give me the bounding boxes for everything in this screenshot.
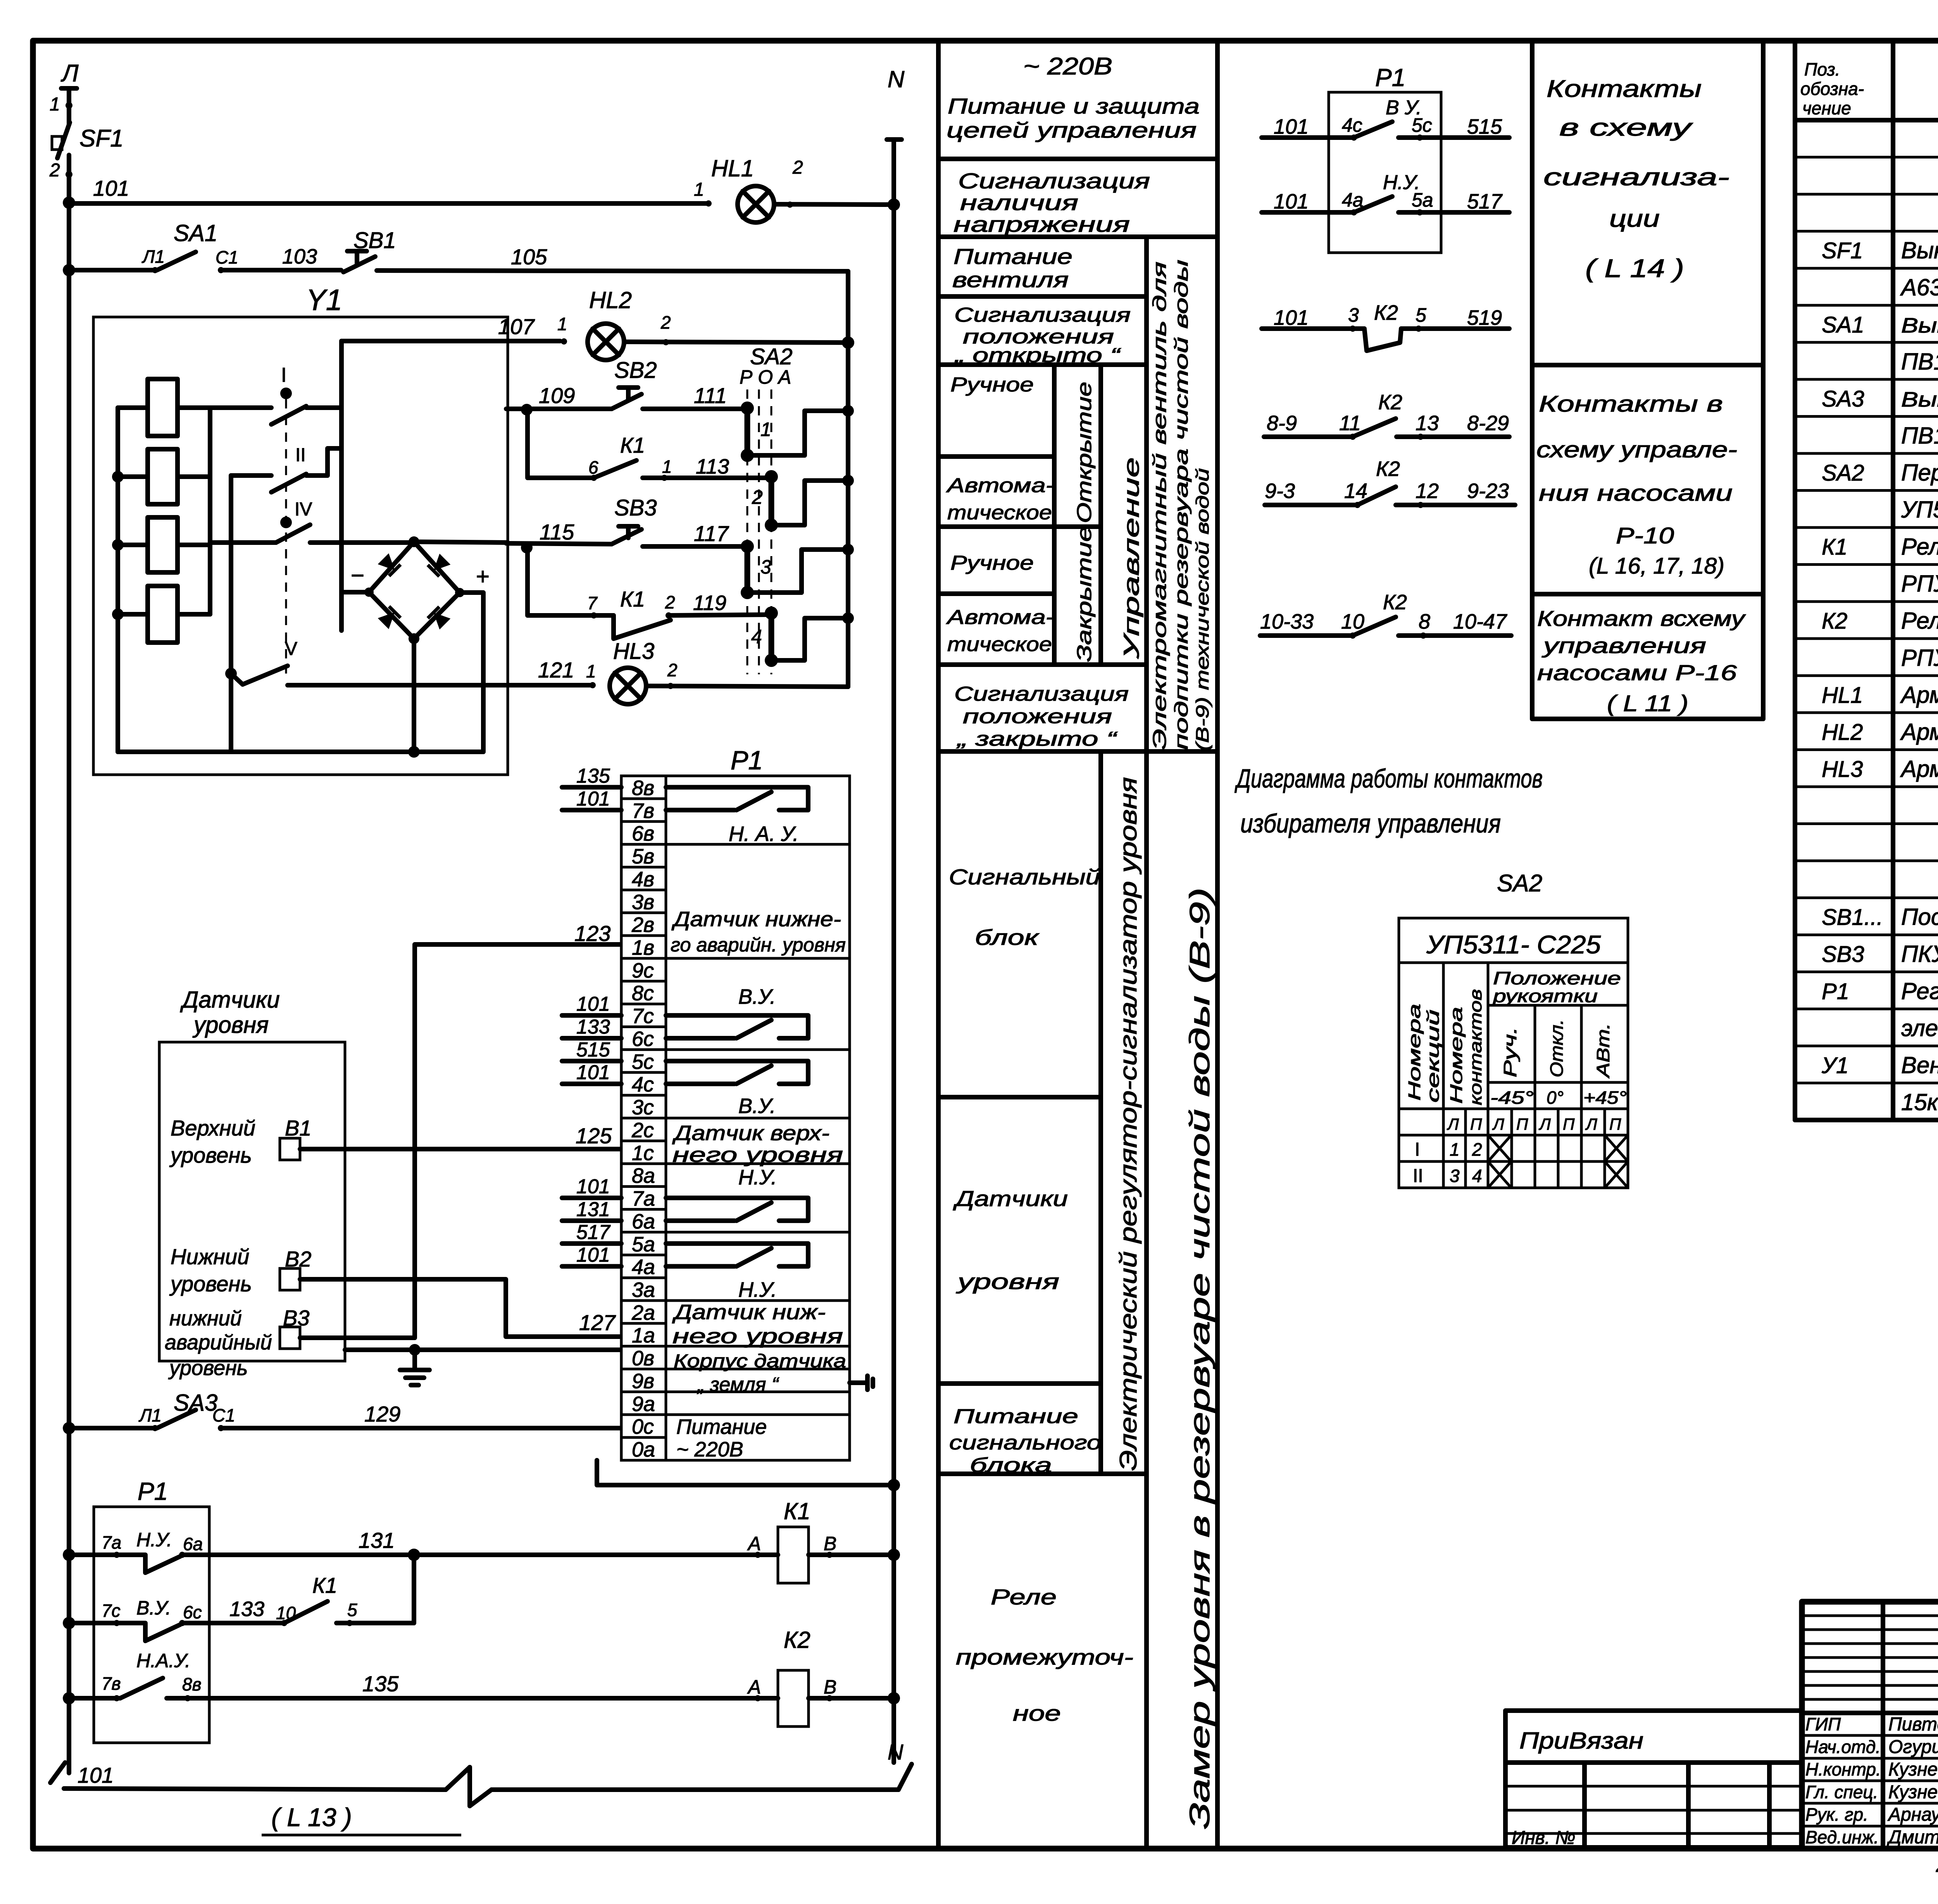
wire stub 101 to 4s: [562, 1082, 621, 1086]
svg-text:113: 113: [696, 455, 729, 478]
svg-text:К2: К2: [1378, 391, 1402, 414]
svg-text:7с: 7с: [632, 1005, 654, 1028]
selector bus right vertical: [846, 343, 850, 687]
svg-text:уровня: уровня: [192, 1012, 269, 1038]
svg-text:I: I: [281, 364, 286, 386]
svg-text:6в: 6в: [632, 822, 654, 845]
box signal block power: [938, 1472, 1147, 1476]
svg-text:„ закрыто “: „ закрыто “: [956, 728, 1118, 750]
svg-text:В.У.: В.У.: [136, 1597, 171, 1619]
svg-text:контактов: контактов: [1466, 989, 1485, 1105]
svg-text:„ открыто “: „ открыто “: [954, 344, 1121, 367]
svg-text:N: N: [888, 66, 905, 92]
svg-text:0в: 0в: [632, 1347, 654, 1370]
contact P1 V.U. to 515: [1262, 135, 1352, 140]
svg-text:Выключатель пакетный однополюс: Выключатель пакетный однополюсный: [1901, 314, 1938, 337]
svg-text:Электрический регулятор-сигнал: Электрический регулятор-сигнализатор уро…: [1115, 777, 1142, 1471]
svg-text:Н. А. У.: Н. А. У.: [729, 822, 798, 846]
svg-text:4с: 4с: [632, 1073, 654, 1096]
svg-text:Рук. гр.: Рук. гр.: [1805, 1804, 1868, 1825]
svg-text:1: 1: [694, 179, 704, 200]
svg-text:сигнального: сигнального: [949, 1432, 1101, 1454]
svg-text:125: 125: [576, 1123, 612, 1148]
diode bridge of Y1: [414, 542, 508, 543]
svg-text:1: 1: [557, 314, 567, 334]
svg-text:8в: 8в: [182, 1674, 202, 1694]
svg-text:Пост управления: Пост управления: [1901, 904, 1938, 930]
svg-text:Пивторак: Пивторак: [1888, 1714, 1938, 1735]
svg-text:ГИП: ГИП: [1805, 1714, 1841, 1734]
svg-text:121: 121: [538, 658, 574, 682]
svg-text:В: В: [824, 1676, 836, 1698]
svg-text:элек'трический ЭРСУ-3; ~220В: элек'трический ЭРСУ-3; ~220В: [1901, 1015, 1938, 1041]
svg-text:К2: К2: [1374, 301, 1398, 324]
svg-text:Нижний: Нижний: [171, 1244, 249, 1269]
sensor B3 square: [280, 1327, 300, 1349]
P1 contact N.U. upper: [666, 1198, 808, 1221]
svg-text:Нач.отд.: Нач.отд.: [1805, 1737, 1881, 1757]
svg-text:ПКУ-15. 19. 131 - 54У2 ; ~22: ПКУ-15. 19. 131 - 54У2 ; ~220В: [1901, 941, 1938, 967]
svg-text:SA1: SA1: [1822, 312, 1864, 338]
svg-text:2в: 2в: [631, 913, 654, 937]
svg-text:К1: К1: [620, 433, 645, 457]
svg-text:6а: 6а: [632, 1210, 655, 1233]
svg-text:Поз.: Поз.: [1804, 59, 1840, 79]
svg-text:нижний: нижний: [169, 1307, 242, 1330]
svg-text:промежуточ-: промежуточ-: [956, 1645, 1133, 1669]
svg-text:HL2: HL2: [589, 287, 632, 313]
box voltage presence signalling: [938, 234, 1217, 239]
middle column inner vertical 2840: [1098, 365, 1103, 665]
svg-text:IV: IV: [295, 499, 312, 520]
svg-text:Автома-: Автома-: [946, 606, 1054, 629]
svg-text:1: 1: [760, 419, 771, 440]
svg-text:У1: У1: [1821, 1053, 1848, 1078]
svg-text:Р1: Р1: [1822, 979, 1849, 1004]
text box contacts to pump control: [1532, 592, 1763, 596]
SA2 type row: [1399, 961, 1628, 964]
svg-text:7в: 7в: [632, 799, 654, 822]
svg-text:SB1...: SB1...: [1822, 905, 1883, 930]
svg-text:цепей управления: цепей управления: [947, 118, 1197, 142]
svg-text:SA1: SA1: [174, 220, 217, 246]
svg-text:127: 127: [579, 1310, 616, 1335]
svg-text:6а: 6а: [183, 1534, 203, 1554]
svg-text:Контакты: Контакты: [1547, 76, 1702, 102]
svg-text:ции: ции: [1609, 205, 1660, 232]
svg-text:101: 101: [576, 1244, 610, 1266]
svg-text:вентиля: вентиля: [952, 267, 1069, 292]
coil 2 of Y1: [148, 449, 178, 504]
svg-text:К1: К1: [312, 1573, 337, 1597]
left bus of Y1 coils: [116, 408, 120, 752]
contact K2 row 9-3: [1265, 503, 1357, 507]
svg-text:2: 2: [792, 157, 803, 178]
svg-text:Датчики: Датчики: [180, 987, 280, 1013]
privyazan columns: [1582, 1763, 1587, 1847]
svg-text:Питание: Питание: [676, 1415, 767, 1439]
svg-text:Н.А.У.: Н.А.У.: [136, 1650, 190, 1671]
svg-text:1: 1: [1450, 1139, 1460, 1160]
middle column outer borders: [936, 41, 941, 1849]
svg-text:8в: 8в: [632, 776, 654, 800]
middle column inner vertical 2958: [1144, 237, 1149, 1849]
svg-text:него уровня: него уровня: [672, 1143, 843, 1167]
wire stub 133 to 6s: [562, 1036, 621, 1041]
svg-text:3: 3: [760, 556, 771, 578]
switch SA3 row wire 129: [69, 1426, 154, 1430]
svg-text:Регулятор-сигнализатор уровня: Регулятор-сигнализатор уровня: [1901, 978, 1938, 1004]
row automatic 2: [938, 662, 1147, 667]
svg-text:Сигнализация: Сигнализация: [958, 169, 1150, 193]
svg-text:SA2: SA2: [750, 344, 793, 369]
SA2 contact bar 1: [745, 408, 750, 455]
svg-text:−: −: [351, 562, 364, 588]
svg-text:0с: 0с: [632, 1415, 654, 1439]
svg-text:Л: Л: [1538, 1115, 1551, 1133]
svg-text:ния насосами: ния насосами: [1539, 481, 1733, 506]
svg-text:Положение: Положение: [1493, 968, 1621, 988]
svg-text:рукоятки: рукоятки: [1492, 986, 1598, 1006]
svg-text:В.У.: В.У.: [738, 1094, 776, 1118]
svg-text:519: 519: [1467, 306, 1502, 329]
svg-text:Инв. №: Инв. №: [1512, 1828, 1575, 1848]
svg-text:К1: К1: [620, 587, 645, 611]
svg-text:Л1: Л1: [138, 1405, 162, 1425]
wire stub 101 to 7a: [562, 1196, 621, 1200]
svg-text:го аварийн. уровня: го аварийн. уровня: [671, 934, 846, 956]
svg-text:Гл. спец.: Гл. спец.: [1805, 1782, 1878, 1802]
svg-text:2с: 2с: [631, 1118, 654, 1142]
svg-text:Управление: Управление: [1119, 457, 1143, 660]
svg-text:сигнализа-: сигнализа-: [1543, 164, 1729, 191]
svg-text:15кч 888р СВМ ; ~220В.: 15кч 888р СВМ ; ~220В.: [1901, 1089, 1938, 1115]
svg-text:Ручное: Ручное: [950, 374, 1034, 396]
svg-text:избирателя управления: избирателя управления: [1240, 809, 1501, 838]
svg-text:Корпус датчика: Корпус датчика: [674, 1351, 846, 1372]
plus corner wire down: [460, 593, 483, 752]
svg-text:133: 133: [576, 1016, 610, 1038]
svg-text:111: 111: [694, 383, 727, 408]
middle column inner vertical 2720: [1052, 365, 1057, 665]
svg-text:101: 101: [576, 1175, 610, 1198]
row manual 2: [938, 591, 1054, 596]
parts table row lines: [1795, 156, 1938, 159]
svg-text:6с: 6с: [183, 1602, 202, 1622]
svg-text:Арматура АС44023У2; ~220В: Арматура АС44023У2; ~220В: [1900, 756, 1938, 782]
svg-text:101: 101: [78, 1763, 114, 1787]
svg-text:Арматура АС4402 1У2; ~220В: Арматура АС4402 1У2; ~220В: [1900, 719, 1938, 745]
svg-text:К2: К2: [1383, 591, 1407, 614]
svg-text:SB3: SB3: [614, 495, 657, 520]
svg-text:129: 129: [364, 1402, 400, 1426]
SA2 contact bar 2: [769, 477, 774, 525]
svg-text:SA3: SA3: [1822, 386, 1864, 412]
svg-text:115: 115: [540, 520, 574, 544]
svg-text:Н.контр.: Н.контр.: [1805, 1759, 1881, 1780]
svg-text:SB3: SB3: [1822, 942, 1864, 967]
wire stub 101 to 7s: [562, 1013, 621, 1018]
svg-text:Арматура АС44025У2; ~220В: Арматура АС44025У2; ~220В: [1900, 682, 1938, 708]
svg-text:2: 2: [1472, 1139, 1482, 1160]
svg-text:4с: 4с: [1342, 114, 1362, 136]
wire 125: [300, 1147, 620, 1151]
circuit breaker SF1: [57, 122, 70, 158]
svg-text:Датчик верх-: Датчик верх-: [672, 1122, 829, 1145]
svg-text:уровень: уровень: [169, 1143, 252, 1167]
svg-text:аварийный: аварийный: [165, 1331, 272, 1354]
wire stub 515 to 5s: [562, 1059, 621, 1063]
svg-text:N: N: [888, 1740, 903, 1764]
svg-text:Выключатель автоматический: Выключатель автоматический: [1901, 238, 1938, 264]
svg-text:К2: К2: [1376, 457, 1400, 481]
privyazan rows: [1505, 1785, 1802, 1788]
svg-text:0а: 0а: [632, 1438, 655, 1461]
svg-text:2а: 2а: [631, 1301, 655, 1324]
svg-text:Автома-: Автома-: [946, 474, 1054, 497]
SA2 staircase wires: [747, 411, 848, 455]
wire stub 101 to 4a: [562, 1264, 621, 1269]
svg-text:АВт.: АВт.: [1593, 1023, 1613, 1079]
svg-text:УП5311- С225 ; ~220В: УП5311- С225 ; ~220В: [1901, 497, 1938, 523]
svg-text:Реле: Реле: [991, 1585, 1057, 1609]
svg-text:Реле промежуточное: Реле промежуточное: [1901, 608, 1938, 634]
privyazan table: [1505, 1711, 1802, 1847]
svg-text:HL2: HL2: [1822, 720, 1863, 745]
wire 0v sensor body: [345, 1347, 620, 1352]
svg-text:А63М; Iн.=10А; Iотс. = 1.3: А63М; Iн.=10А; Iотс. = 1.3 Iн.: [1900, 274, 1938, 300]
svg-text:10-47: 10-47: [1453, 610, 1507, 633]
wire stub 135 to 8v: [562, 785, 621, 789]
svg-text:Арнаутова: Арнаутова: [1887, 1804, 1938, 1825]
svg-text:11: 11: [1339, 412, 1361, 435]
svg-text:3: 3: [1450, 1166, 1460, 1186]
contact N.A.U. row 135: [69, 1696, 120, 1701]
svg-text:SB2: SB2: [614, 358, 657, 383]
svg-text:Переключатель универсальный: Переключатель универсальный: [1901, 460, 1938, 486]
svg-text:II: II: [295, 445, 306, 465]
coil 4 of Y1: [148, 586, 178, 643]
svg-text:1: 1: [50, 94, 60, 115]
svg-text:5: 5: [1416, 304, 1426, 326]
svg-text:Л: Л: [1585, 1115, 1597, 1133]
svg-text:117: 117: [694, 521, 729, 546]
bottom return wire of Y1: [118, 750, 483, 754]
svg-text:2: 2: [665, 592, 675, 612]
svg-text:„ земля “: „ земля “: [697, 1373, 779, 1396]
box signal block: [938, 1095, 1101, 1099]
svg-text:3а: 3а: [632, 1279, 655, 1302]
ground symbol: [412, 1350, 417, 1370]
svg-text:С1: С1: [216, 247, 238, 267]
svg-text:517: 517: [1467, 190, 1503, 213]
box open position signalling: [938, 362, 1147, 367]
svg-text:В.У.: В.У.: [738, 985, 776, 1008]
svg-text:SF1: SF1: [79, 125, 124, 152]
earth tick right of P1: [850, 1380, 867, 1385]
svg-text:Руч.: Руч.: [1500, 1027, 1520, 1077]
svg-text:5с: 5с: [632, 1050, 654, 1073]
SA2 contact bar 4: [769, 613, 774, 660]
svg-text:Р1: Р1: [138, 1477, 168, 1505]
svg-text:наличия: наличия: [960, 190, 1078, 215]
svg-text:14: 14: [1344, 479, 1367, 503]
contact N.U. row 131: [69, 1552, 116, 1557]
svg-text:2: 2: [660, 312, 671, 333]
svg-text:напряжения: напряжения: [953, 212, 1130, 236]
svg-text:А: А: [747, 1533, 761, 1554]
svg-text:Р1: Р1: [1375, 64, 1405, 91]
svg-text:3: 3: [1348, 304, 1359, 326]
svg-text:РПУ-2-36220УЗБ ; ~220В; 2з.: РПУ-2-36220УЗБ ; ~220В; 2з. +2р.: [1901, 571, 1938, 597]
svg-text:~ 220В: ~ 220В: [676, 1438, 743, 1461]
svg-text:517: 517: [576, 1221, 611, 1244]
svg-text:5в: 5в: [632, 845, 654, 868]
svg-text:блока: блока: [970, 1454, 1052, 1477]
svg-text:9а: 9а: [632, 1392, 655, 1416]
wire 115 inside Y1: [310, 540, 414, 545]
svg-text:Питание: Питание: [953, 1405, 1078, 1428]
svg-text:Н.У.: Н.У.: [738, 1166, 777, 1189]
P1 contact 5a-4a: [666, 1244, 808, 1266]
svg-text:8с: 8с: [632, 982, 654, 1005]
title block outer frame: [1802, 1602, 1938, 1849]
svg-text:в схему: в схему: [1559, 114, 1693, 141]
svg-text:тическое: тическое: [947, 633, 1052, 656]
svg-text:насосами Р-16: насосами Р-16: [1537, 660, 1737, 685]
svg-text:Питание: Питание: [953, 244, 1072, 269]
text box contact to pump P-16: [1532, 717, 1763, 721]
junction dots on left rail: [63, 196, 75, 209]
svg-text:ное: ное: [1013, 1701, 1061, 1725]
parts list table frame: [1793, 43, 1797, 1120]
svg-text:К1: К1: [1822, 534, 1847, 560]
svg-text:П: П: [1470, 1115, 1482, 1133]
dashed selector line in Y1: [285, 399, 287, 674]
svg-text:9-3: 9-3: [1265, 479, 1295, 503]
svg-text:5а: 5а: [1412, 189, 1433, 211]
svg-text:7в: 7в: [102, 1673, 121, 1694]
wire stub 517 to 5a: [562, 1241, 621, 1246]
svg-text:5а: 5а: [632, 1233, 655, 1256]
svg-text:SF1: SF1: [1822, 238, 1863, 264]
contact V.U. row 133: [69, 1621, 116, 1625]
svg-text:Р1: Р1: [731, 746, 763, 775]
wire 107 start: [306, 405, 341, 410]
svg-text:8а: 8а: [632, 1164, 655, 1187]
svg-text:Дмитриева: Дмитриева: [1886, 1827, 1938, 1848]
svg-text:уровень: уровень: [169, 1272, 252, 1296]
contact K2 row 10-33: [1260, 633, 1353, 638]
P1 contact 5s-4s: [666, 1061, 808, 1084]
svg-text:5: 5: [347, 1600, 357, 1620]
title block signature columns: [1881, 1602, 1885, 1849]
svg-text:-45°: -45°: [1490, 1087, 1534, 1108]
svg-text:119: 119: [693, 591, 726, 615]
svg-text:Номера: Номера: [1405, 1004, 1424, 1101]
svg-text:HL1: HL1: [711, 155, 754, 181]
right rail N: [891, 140, 896, 1763]
left rail wire L 101: [67, 155, 71, 1773]
svg-text:уровень: уровень: [168, 1356, 248, 1380]
svg-text:К1: К1: [784, 1498, 810, 1524]
sensor B1 square: [280, 1138, 300, 1160]
svg-text:ПВ1-10 ; ~220В ; исп. 3: ПВ1-10 ; ~220В ; исп. 3: [1901, 348, 1938, 374]
svg-text:Н.У.: Н.У.: [136, 1529, 172, 1551]
row manual 1: [938, 454, 1054, 459]
svg-text:1с: 1с: [632, 1141, 654, 1165]
svg-text:Огурцов: Огурцов: [1888, 1737, 1938, 1757]
svg-text:2: 2: [49, 160, 60, 181]
branch to K1 NC contact: [528, 548, 614, 615]
svg-text:Л: Л: [1492, 1115, 1504, 1133]
wire 127: [300, 1279, 620, 1337]
svg-text:К2: К2: [1822, 608, 1847, 634]
svg-text:4: 4: [751, 626, 762, 648]
svg-text:4: 4: [1472, 1166, 1482, 1186]
svg-text:107: 107: [498, 314, 535, 339]
title block name rows: [1802, 1734, 1938, 1737]
title block thin revision rows: [1802, 1615, 1938, 1617]
svg-text:HL3: HL3: [1822, 756, 1863, 782]
svg-text:Кузнецов: Кузнецов: [1888, 1759, 1938, 1780]
svg-text:уровня: уровня: [955, 1269, 1059, 1294]
svg-text:Откл.: Откл.: [1547, 1019, 1567, 1077]
SA2 header lines: [1442, 963, 1445, 1188]
svg-text:8-9: 8-9: [1267, 412, 1297, 435]
svg-text:2: 2: [752, 486, 763, 508]
box level sensors: [938, 1381, 1101, 1386]
svg-text:HL1: HL1: [1822, 682, 1863, 708]
L13 reference bracket: [64, 1789, 446, 1790]
text box contacts to signalling circuit: [1532, 363, 1763, 367]
svg-text:( L 13 ): ( L 13 ): [271, 1803, 352, 1832]
svg-text:10: 10: [1341, 610, 1364, 633]
wire stub 101 to 7v: [562, 808, 621, 812]
svg-text:Реле прометуточное: Реле прометуточное: [1901, 534, 1938, 560]
svg-text:Датчик ниж-: Датчик ниж-: [672, 1301, 826, 1324]
svg-text:7а: 7а: [632, 1187, 655, 1210]
svg-text:чение: чение: [1802, 98, 1851, 118]
svg-text:515: 515: [1467, 115, 1502, 138]
svg-text:Сигнализация: Сигнализация: [954, 304, 1131, 326]
wire stub 131 to 6a: [562, 1218, 621, 1223]
box closed position signalling: [938, 749, 1217, 754]
wire 121 HL3 row: [288, 683, 591, 688]
svg-text:Вед.инж.: Вед.инж.: [1805, 1827, 1879, 1847]
svg-text:515: 515: [576, 1039, 610, 1061]
svg-text:Верхний: Верхний: [171, 1116, 255, 1140]
svg-text:101: 101: [1274, 115, 1309, 138]
svg-text:3с: 3с: [632, 1096, 654, 1119]
svg-text:21179- 03: 21179- 03: [1936, 1851, 1938, 1877]
svg-text:П: П: [1516, 1115, 1528, 1133]
svg-text:А: А: [747, 1676, 761, 1698]
P1 contact N.A.U.: [666, 787, 808, 810]
svg-text:В1: В1: [285, 1116, 312, 1140]
svg-text:П: П: [1563, 1115, 1575, 1133]
svg-text:Открытие: Открытие: [1073, 382, 1096, 523]
svg-text:схему управле-: схему управле-: [1536, 437, 1737, 462]
svg-text:SA2: SA2: [1822, 460, 1864, 486]
wire 103-105 SA1 row: [69, 268, 154, 272]
svg-text:7с: 7с: [102, 1601, 121, 1621]
svg-text:ПриВязан: ПриВязан: [1519, 1728, 1643, 1754]
svg-text:131: 131: [576, 1198, 610, 1221]
svg-text:Контакты в: Контакты в: [1539, 391, 1723, 417]
wire 109 row: [521, 404, 533, 415]
svg-text:131: 131: [359, 1528, 395, 1552]
